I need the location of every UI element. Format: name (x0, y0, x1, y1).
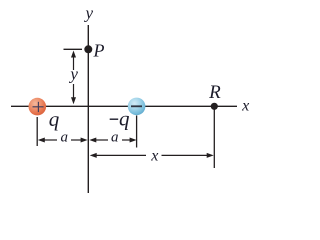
svg-text:P: P (93, 41, 105, 61)
point P (84, 45, 92, 53)
dimension arrow x (90, 153, 214, 158)
charge -q (128, 98, 146, 116)
svg-text:q: q (119, 106, 130, 130)
svg-text:y: y (84, 4, 94, 23)
dimension arrow a (left) (38, 138, 88, 143)
svg-text:q: q (49, 107, 60, 131)
tick below +q (36, 117, 38, 146)
svg-text:x: x (150, 147, 158, 164)
y-axis (87, 25, 89, 193)
tick below R (213, 108, 215, 169)
svg-text:a: a (60, 129, 68, 145)
charge +q (29, 98, 47, 116)
tick at P (64, 48, 83, 50)
svg-text:x: x (241, 97, 249, 114)
svg-text:a: a (111, 129, 119, 145)
point R (211, 103, 218, 110)
svg-text:y: y (68, 65, 78, 84)
dimension arrow a (right) (89, 138, 136, 143)
x-axis (11, 105, 237, 107)
svg-text:R: R (208, 82, 221, 103)
dimension arrow y (71, 51, 76, 105)
label -q (110, 106, 130, 130)
tick below -q (136, 116, 138, 148)
